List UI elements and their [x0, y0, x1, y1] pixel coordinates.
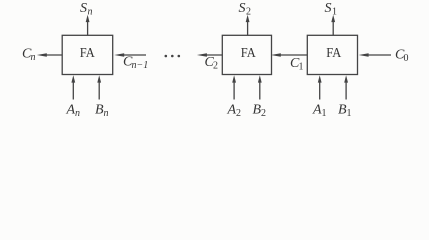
svg-text:1: 1 — [299, 62, 304, 73]
svg-text:1: 1 — [322, 108, 327, 119]
svg-text:S: S — [239, 1, 246, 16]
svg-text:n: n — [31, 52, 36, 63]
svg-text:S: S — [325, 1, 332, 16]
svg-text:n: n — [75, 108, 80, 119]
svg-text:2: 2 — [236, 108, 241, 119]
svg-text:2: 2 — [213, 61, 218, 72]
svg-text:FA: FA — [326, 46, 342, 61]
svg-text:A: A — [227, 103, 237, 118]
svg-text:n: n — [104, 108, 109, 119]
svg-text:FA: FA — [80, 46, 96, 61]
svg-text:FA: FA — [241, 46, 257, 61]
svg-text:A: A — [312, 103, 322, 118]
svg-text:n−1: n−1 — [132, 60, 149, 71]
svg-text:A: A — [66, 103, 76, 118]
svg-text:S: S — [80, 1, 87, 16]
svg-text:2: 2 — [246, 6, 251, 17]
svg-text:1: 1 — [347, 108, 352, 119]
svg-text:n: n — [88, 6, 93, 17]
svg-text:1: 1 — [332, 6, 337, 17]
svg-text:0: 0 — [404, 53, 409, 64]
svg-text:2: 2 — [261, 108, 266, 119]
